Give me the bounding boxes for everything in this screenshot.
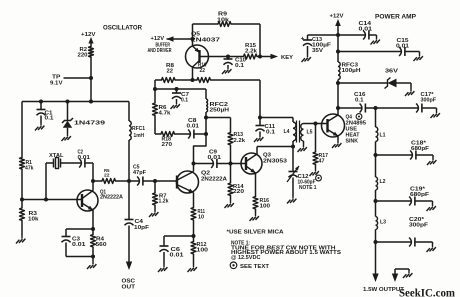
junction RFC2/C8 node <box>204 132 208 136</box>
svg-text:SEE TEXT: SEE TEXT <box>240 264 269 270</box>
svg-text:2N4037: 2N4037 <box>191 38 220 44</box>
svg-text:AND DRIVER: AND DRIVER <box>148 48 172 54</box>
node: POWER AMP section label <box>375 14 416 21</box>
ground (36V zener) <box>405 89 414 97</box>
capacitor C19 680pF silver mica <box>376 187 433 206</box>
svg-text:100µH: 100µH <box>342 68 361 74</box>
svg-text:47pF: 47pF <box>133 170 146 176</box>
ground (R7) <box>149 210 158 218</box>
svg-text:SINK: SINK <box>346 139 359 145</box>
junction L2/L3/C19 <box>374 199 378 203</box>
wire Q1 base line <box>22 199 82 201</box>
wire R8 node down <box>154 80 156 89</box>
junction C10 tap <box>226 55 230 59</box>
ground (C20) <box>427 242 436 252</box>
svg-text:+: + <box>301 35 305 42</box>
svg-text:220: 220 <box>233 189 244 195</box>
capacitor C9 0.01 <box>194 150 247 169</box>
wire to Q2 base <box>155 180 177 182</box>
junction R13/R14/Q3 base <box>229 162 233 166</box>
resistor R14 220 <box>228 164 244 201</box>
junction Q2 collector/C9 <box>192 162 196 166</box>
ground (Q4 emitter) <box>332 141 341 149</box>
svg-text:270: 270 <box>162 142 173 148</box>
node +12V (oscillator supply terminal) <box>81 32 96 47</box>
junction L5/R17 <box>314 122 318 126</box>
resistor R12 100 <box>191 236 208 265</box>
junction RFC3/zener 36V <box>336 81 340 85</box>
capacitor C11 0.1 <box>256 118 276 136</box>
resistor R3 10k <box>20 200 40 237</box>
capacitor C6 0.01 <box>160 236 194 265</box>
svg-text:680pF: 680pF <box>411 146 430 152</box>
resistor R9 10k <box>193 12 261 57</box>
junction base/XTAL <box>44 198 48 202</box>
wire supply to L4 <box>260 117 293 119</box>
svg-text:100: 100 <box>260 204 271 210</box>
capacitor C5 47pF <box>129 165 155 186</box>
resistor R11 10 <box>191 208 205 237</box>
ground (R12) <box>188 265 197 273</box>
ground (C11) <box>254 135 263 143</box>
resistor R2 220 <box>78 47 94 59</box>
wire Q5 base line <box>200 56 244 58</box>
junction Q3 collector/L4/C12 <box>291 145 295 149</box>
transistor Q4 2N4895 <box>321 108 366 145</box>
node KEY terminal <box>260 54 293 61</box>
junction C7 tap <box>175 87 179 91</box>
svg-text:OSCILLATOR: OSCILLATOR <box>103 26 143 32</box>
node note: USE SILVER MICA <box>227 230 285 236</box>
svg-text:0.01: 0.01 <box>78 155 91 161</box>
svg-text:35V: 35V <box>312 48 323 54</box>
svg-text:36V: 36V <box>385 69 398 75</box>
junction Q1 emitter <box>91 227 95 231</box>
resistor R16 100 <box>253 197 270 214</box>
junction Q1 collector node <box>91 179 95 183</box>
ground (C19) <box>427 201 436 211</box>
svg-text:NOTE 1: NOTE 1 <box>299 185 317 191</box>
wire XTAL branch <box>46 163 53 200</box>
ground (Q1 emitter) <box>87 262 96 270</box>
svg-text:0.01: 0.01 <box>208 155 222 161</box>
wire jog to Q2 collector <box>194 134 207 164</box>
svg-text:10k: 10k <box>28 217 39 223</box>
junction R15/R9/KEY <box>258 55 262 59</box>
svg-text:300pF: 300pF <box>409 222 429 228</box>
svg-text:2N2222A: 2N2222A <box>100 195 123 201</box>
node watermark SeekIC.com <box>399 288 455 297</box>
ground (R16) <box>250 214 259 222</box>
resistor R4 560 <box>91 229 107 262</box>
svg-text:680pF: 680pF <box>410 192 430 198</box>
junction R5/RFC1/C5/C4 <box>127 179 131 183</box>
capacitor C10 0.1 <box>224 57 247 69</box>
capacitor C20 300pF silver mica <box>376 217 433 247</box>
svg-text:1.2k: 1.2k <box>159 199 169 205</box>
resistor R1 47k <box>20 158 34 172</box>
junction bus/R2 <box>89 100 93 104</box>
junction C11/L4 supply node <box>258 116 262 120</box>
ground (C7) <box>171 102 180 110</box>
inductor RFC2 250uH <box>206 89 229 134</box>
wire R13 tap line <box>206 117 231 119</box>
resistor R8 22 <box>155 63 193 82</box>
svg-text:0.1: 0.1 <box>266 129 275 135</box>
svg-text:POWER AMP: POWER AMP <box>375 14 416 21</box>
svg-text:100: 100 <box>197 248 209 254</box>
svg-text:L2: L2 <box>380 179 386 185</box>
wire Q3 collector to L4 <box>257 146 293 148</box>
crystal XTAL <box>49 153 81 169</box>
junction +12V/C13/C14 <box>336 33 340 37</box>
ground (1N4739) <box>62 134 71 142</box>
svg-text:*USE SILVER MICA: *USE SILVER MICA <box>227 230 285 236</box>
svg-text:9.1V: 9.1V <box>50 81 63 87</box>
capacitor C3 0.01 <box>62 229 94 257</box>
svg-text:0.01: 0.01 <box>170 253 184 259</box>
node +12V (power amp supply terminal) <box>330 14 344 63</box>
svg-text:560: 560 <box>96 242 107 248</box>
svg-text:0.01: 0.01 <box>396 43 409 49</box>
svg-text:L4: L4 <box>284 129 291 135</box>
capacitor C8 0.01 <box>187 118 207 139</box>
transistor Q5 2N4037 (PNP keying) <box>186 32 221 81</box>
inductor L3 <box>376 201 387 242</box>
svg-text:0.01: 0.01 <box>187 124 200 130</box>
svg-text:2N3053: 2N3053 <box>263 159 287 165</box>
wire R10 to driver supply node <box>259 80 261 118</box>
ground (R17) <box>310 169 319 177</box>
capacitor C15 0.01 <box>338 38 420 56</box>
node: BUFFER AND DRIVER section label <box>148 43 172 55</box>
node OSC OUT terminal <box>122 262 136 291</box>
capacitor C18 680pF silver mica <box>376 141 434 160</box>
inductor L1 <box>376 108 386 155</box>
capacitor C13 100uF 35V electrolytic <box>301 35 339 55</box>
svg-text:0.1: 0.1 <box>45 116 54 122</box>
inductor RFC1 1mH <box>129 102 145 182</box>
node output return terminal <box>392 269 409 282</box>
svg-text:300pF: 300pF <box>421 97 437 103</box>
wire C2 to Q1 collector node <box>92 163 94 181</box>
junction +12V/R9/Q5 emitter <box>191 37 195 41</box>
transformer secondary L5 <box>301 124 321 145</box>
transformer core <box>297 121 300 143</box>
node note: NOTE 1 text <box>231 240 341 261</box>
capacitor C2 0.01 <box>78 150 94 168</box>
svg-text:250µH: 250µH <box>210 108 230 114</box>
svg-text:2.2k: 2.2k <box>245 49 258 55</box>
wire 9.1V bus <box>22 101 129 103</box>
svg-text:L5: L5 <box>307 130 313 136</box>
ground (C18) <box>427 155 436 165</box>
transistor Q3 2N3053 <box>241 147 287 197</box>
resistor R18 270 <box>155 132 191 148</box>
ground (C1) <box>35 123 44 131</box>
junction R11/R12/C6 <box>192 234 196 238</box>
junction L1/L2/C18 <box>374 153 378 157</box>
svg-text:1mH: 1mH <box>134 133 145 139</box>
svg-text:L3: L3 <box>380 220 386 226</box>
resistor R17 47 <box>313 124 328 169</box>
svg-text:22: 22 <box>200 68 206 74</box>
wire C7/RFC2 line <box>155 88 206 90</box>
inductor RFC3 100uH <box>338 62 361 108</box>
transformer primary L4 <box>284 118 297 147</box>
svg-text:10: 10 <box>198 214 204 220</box>
junction R2/TP <box>89 76 93 80</box>
svg-text:KEY: KEY <box>281 55 293 61</box>
resistor R10 22 <box>193 63 261 83</box>
svg-text:OUT: OUT <box>122 284 136 290</box>
ground (R3) <box>16 236 25 244</box>
junction bus/D1 <box>66 100 70 104</box>
junction C16/L1/C17 <box>374 106 378 110</box>
junction L3/C20/output <box>374 240 378 244</box>
zener diode 1N4739 <box>62 102 106 134</box>
resistor R13 2.2k <box>228 118 246 164</box>
svg-text:XTAL: XTAL <box>49 153 64 159</box>
node +12V (buffer supply terminal) <box>151 36 193 42</box>
svg-text:0.1: 0.1 <box>355 97 364 103</box>
svg-text:+12V: +12V <box>330 14 344 20</box>
svg-text:4.7k: 4.7k <box>159 111 172 117</box>
svg-text:+12V: +12V <box>151 36 165 42</box>
svg-text:0.1: 0.1 <box>181 97 188 103</box>
svg-text:+12V: +12V <box>81 32 96 38</box>
capacitor C4 10pF (osc output coupling) <box>125 181 150 262</box>
junction +12V/C15 <box>336 50 340 54</box>
ground (C14) <box>371 35 380 45</box>
resistor R15 2.2k <box>244 43 261 59</box>
svg-text:2.2k: 2.2k <box>234 138 246 144</box>
capacitor C14 0.01 <box>338 21 377 40</box>
junction C5/R7/Q2 base <box>153 179 157 183</box>
capacitor C1 0.1 <box>37 102 54 124</box>
junction R4/C3 <box>91 255 95 259</box>
ground (L5) <box>298 145 307 153</box>
resistor R6 4.7k <box>153 89 172 134</box>
capacitor C16 0.1 <box>338 92 376 113</box>
transistor Q2 2N2222A <box>177 164 228 208</box>
svg-text:47k: 47k <box>25 166 34 172</box>
node note: SEE TEXT legend <box>230 262 269 270</box>
svg-text:0.01: 0.01 <box>359 26 373 32</box>
svg-text:2N2222A: 2N2222A <box>201 177 227 183</box>
svg-text:0.01: 0.01 <box>72 242 86 248</box>
node TP 9.1V test point <box>50 75 91 87</box>
svg-text:10pF: 10pF <box>134 225 150 231</box>
junction R8/C7/RFC2 node <box>153 87 157 91</box>
ground (C17) <box>431 108 440 118</box>
wire left rail (bus to base node) <box>21 102 23 200</box>
svg-text:L1: L1 <box>380 133 386 139</box>
transistor Q1 2N2222A <box>77 181 123 229</box>
junction bus/C1 <box>39 100 43 104</box>
svg-text:RFC1: RFC1 <box>132 126 145 132</box>
junction Q5 collector / R8 R10 <box>191 78 195 82</box>
wire R2 to 9.1V bus <box>90 57 92 102</box>
ground (C12) <box>287 196 296 204</box>
junction base/R1-R3 <box>20 198 24 202</box>
svg-text:1N4739: 1N4739 <box>74 121 106 127</box>
resistor R5 22 <box>93 168 129 184</box>
junction RFC2/R13 tap <box>204 116 208 120</box>
node 1.5W OUTPUT terminal <box>363 242 404 293</box>
ground (C15) <box>414 52 423 62</box>
svg-text:10k: 10k <box>217 18 230 24</box>
inductor L2 <box>376 155 386 201</box>
variable capacitor C12 10-60pF <box>287 147 321 197</box>
capacitor C17 300pF silver mica <box>376 92 437 113</box>
capacitor C7 0.1 <box>172 89 189 103</box>
svg-text:@ 12.5VDC: @ 12.5VDC <box>231 255 261 261</box>
svg-text:47: 47 <box>319 159 325 165</box>
resistor R7 1.2k <box>153 181 169 210</box>
svg-text:22: 22 <box>167 68 174 74</box>
zener diode 36V <box>338 69 411 89</box>
svg-text:220: 220 <box>78 53 88 59</box>
ground (C10) <box>222 67 231 75</box>
node: OSCILLATOR section label <box>103 26 143 32</box>
svg-text:SeekIC.com: SeekIC.com <box>399 288 455 297</box>
svg-text:22: 22 <box>104 172 110 178</box>
ground (output return) <box>403 271 412 279</box>
ground (C13) <box>302 55 311 63</box>
ground (C6) <box>158 265 167 273</box>
ground (R14) <box>225 201 234 209</box>
svg-text:0.1: 0.1 <box>235 63 244 69</box>
junction Q4 collector node <box>336 106 340 110</box>
